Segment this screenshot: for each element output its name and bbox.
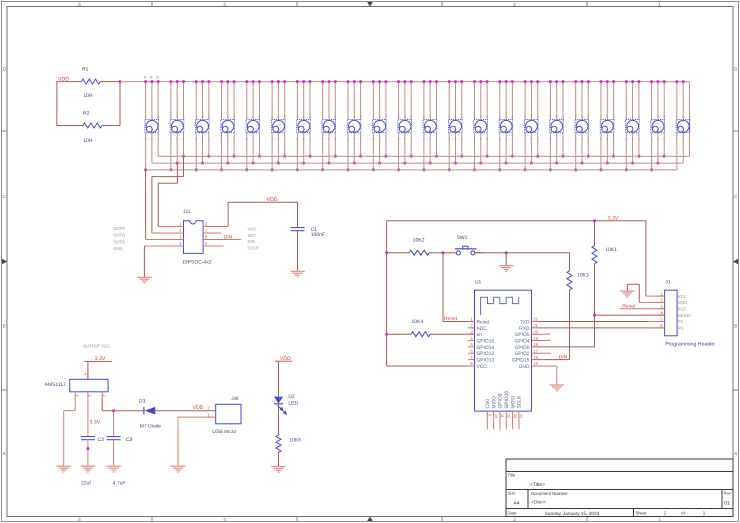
svg-text:2: 2 — [151, 115, 153, 119]
svg-text:12: 12 — [506, 414, 510, 418]
svg-text:LED: LED — [288, 401, 298, 407]
LED pixel 4 — [220, 80, 236, 171]
frame column ticks top — [152, 2, 587, 522]
svg-text:1: 1 — [347, 115, 349, 119]
svg-text:Sheet: Sheet — [636, 511, 648, 516]
svg-text:2: 2 — [505, 115, 507, 119]
svg-text:7: 7 — [470, 355, 473, 360]
svg-text:3: 3 — [360, 115, 362, 119]
LED pixel 20 — [625, 80, 641, 171]
svg-text:GPIO14: GPIO14 — [477, 345, 495, 351]
svg-text:GPIO13: GPIO13 — [477, 358, 495, 364]
svg-text:OUTG: OUTG — [113, 233, 125, 238]
svg-text:3: 3 — [157, 115, 159, 119]
wire 10K4 row — [387, 333, 412, 335]
svg-text:R2: R2 — [83, 111, 90, 117]
svg-text:10K4: 10K4 — [412, 319, 424, 325]
svg-text:8: 8 — [470, 361, 473, 366]
svg-text:3: 3 — [470, 329, 473, 334]
LED D2 — [274, 397, 283, 404]
svg-text:RXD: RXD — [519, 326, 530, 332]
connector J1 — [665, 290, 678, 336]
svg-text:2: 2 — [404, 115, 406, 119]
svg-text:GPIO2: GPIO2 — [515, 351, 530, 357]
wire U1 gnd drop — [556, 366, 558, 385]
wire left rail vertical — [386, 221, 388, 366]
wire gnd drop at SW1 — [505, 253, 507, 266]
svg-text:3: 3 — [613, 115, 615, 119]
svg-text:10R: 10R — [83, 93, 93, 99]
resistor 10K6 — [276, 435, 281, 452]
svg-text:10: 10 — [494, 414, 498, 418]
svg-text:DIN: DIN — [248, 239, 255, 244]
svg-text:<Doc>: <Doc> — [531, 500, 546, 506]
svg-text:3: 3 — [179, 235, 182, 240]
ground at J1 — [620, 290, 634, 292]
wire 3.3V rail — [387, 220, 646, 222]
svg-text:3.3V: 3.3V — [608, 216, 619, 222]
wire D3 to J36 — [155, 410, 215, 412]
wire J11 pin4 to ground — [143, 246, 145, 277]
LED pixel 14 — [473, 80, 489, 171]
svg-text:2: 2 — [657, 115, 659, 119]
wire VDD horizontal to C1 — [228, 201, 297, 203]
svg-text:DIPSOC-4x2: DIPSOC-4x2 — [183, 259, 212, 265]
svg-text:3: 3 — [663, 115, 665, 119]
svg-text:3: 3 — [410, 115, 412, 119]
svg-text:MISO: MISO — [491, 396, 497, 409]
wire bus line A — [158, 155, 689, 157]
svg-text:10K1: 10K1 — [605, 247, 617, 253]
switch SW1 — [448, 246, 484, 255]
wire VDD to R1 — [57, 81, 81, 83]
wire bus right end drop to line A — [689, 82, 691, 157]
svg-text:AMS1117: AMS1117 — [45, 382, 66, 388]
svg-text:Sunday, January 15, 2023: Sunday, January 15, 2023 — [545, 511, 600, 516]
LED pixel 11 — [397, 80, 413, 171]
wire line D return — [152, 176, 184, 178]
svg-text:1: 1 — [179, 222, 182, 227]
svg-text:3: 3 — [233, 115, 235, 119]
wire 3.3V drop to J1 — [645, 221, 647, 296]
svg-text:D: D — [3, 66, 7, 71]
svg-text:2: 2 — [581, 115, 583, 119]
svg-text:10K6: 10K6 — [289, 438, 301, 444]
svg-text:9: 9 — [488, 414, 492, 416]
svg-text:1: 1 — [651, 115, 653, 119]
J11 pin 1 — [158, 226, 183, 228]
svg-text:1: 1 — [423, 115, 425, 119]
svg-text:R1: R1 — [82, 67, 89, 73]
svg-text:3: 3 — [461, 115, 463, 119]
svg-text:5: 5 — [470, 342, 473, 347]
svg-text:3: 3 — [259, 115, 261, 119]
diode D3 — [143, 407, 145, 415]
junction below C2 — [86, 447, 89, 450]
wire RXD row — [532, 327, 665, 329]
svg-text:Reset: Reset — [622, 304, 636, 310]
capacitor C2 — [81, 436, 95, 438]
svg-text:3: 3 — [284, 115, 286, 119]
svg-text:Reset: Reset — [444, 316, 458, 322]
wire J1 pin4 row — [595, 314, 665, 316]
wire input row — [102, 410, 144, 412]
wire R1 right to node — [100, 81, 120, 83]
wire R2 right — [102, 125, 120, 127]
U1 pin19 stub — [532, 340, 551, 342]
capacitor C3 — [107, 436, 121, 438]
U1 antenna meander — [481, 297, 519, 315]
ground below C1 — [290, 270, 304, 272]
svg-text:G: G — [156, 76, 159, 80]
svg-text:2: 2 — [353, 115, 355, 119]
wire C2 to gnd — [87, 440, 89, 466]
title block — [506, 459, 733, 517]
wire VCC row — [387, 365, 475, 367]
svg-text:3: 3 — [183, 115, 185, 119]
U1 pin20 stub — [532, 333, 551, 335]
svg-text:17: 17 — [533, 348, 538, 353]
svg-text:D3: D3 — [139, 398, 146, 404]
svg-text:6: 6 — [205, 235, 208, 240]
svg-text:1: 1 — [170, 115, 172, 119]
svg-text:1: 1 — [297, 115, 299, 119]
svg-text:2: 2 — [660, 298, 663, 303]
junction left rail at en row — [385, 333, 388, 336]
svg-text:1: 1 — [499, 115, 501, 119]
J11 pin 3 — [146, 239, 184, 241]
svg-text:10K2: 10K2 — [413, 237, 425, 243]
svg-text:A: A — [3, 451, 6, 456]
svg-text:B: B — [3, 324, 6, 329]
svg-text:2: 2 — [176, 115, 178, 119]
svg-text:2: 2 — [606, 115, 608, 119]
svg-text:1: 1 — [664, 511, 667, 516]
svg-text:SET: SET — [248, 233, 257, 238]
svg-text:01: 01 — [724, 501, 730, 507]
wire bus line B — [152, 162, 683, 164]
svg-text:3: 3 — [537, 115, 539, 119]
wire left vertical R1-R2 — [56, 81, 58, 126]
wire VDD to D2 — [278, 361, 280, 396]
U1 pin 6 stub — [468, 352, 475, 354]
svg-text:2: 2 — [227, 115, 229, 119]
svg-text:ADC: ADC — [477, 326, 488, 332]
junction R1/R2 output node — [119, 80, 122, 83]
svg-text:1: 1 — [660, 291, 663, 296]
wire 10K4 to U1 en — [430, 333, 474, 335]
J1 pin2 wire — [639, 301, 664, 303]
svg-text:USB micro: USB micro — [212, 429, 236, 435]
svg-text:1: 1 — [75, 395, 79, 397]
svg-text:SCLK: SCLK — [517, 395, 523, 409]
wire line E right riser — [176, 163, 178, 183]
LED pixel 9 — [347, 80, 363, 171]
svg-text:2: 2 — [632, 115, 634, 119]
svg-text:GPIO10: GPIO10 — [504, 391, 510, 409]
ground at U1 — [550, 384, 564, 386]
svg-text:RX: RX — [678, 326, 684, 331]
frame row letters — [3, 66, 739, 456]
svg-text:3: 3 — [562, 115, 564, 119]
wire U1 GND row — [532, 365, 557, 367]
svg-text:2: 2 — [470, 323, 473, 328]
svg-text:3: 3 — [660, 304, 663, 309]
svg-text:2: 2 — [278, 115, 280, 119]
wire 10K6 to gnd — [278, 452, 280, 466]
wire D2 to 10K6 — [278, 404, 280, 435]
svg-text:1: 1 — [398, 115, 400, 119]
LED pixel 21 — [650, 80, 666, 171]
svg-text:DOUT: DOUT — [248, 246, 260, 251]
svg-text:2: 2 — [179, 228, 182, 233]
svg-text:Document Number: Document Number — [531, 491, 568, 496]
svg-text:Size: Size — [508, 491, 517, 496]
connector J36 — [216, 404, 241, 424]
svg-text:5: 5 — [660, 317, 663, 322]
svg-text:1: 1 — [372, 115, 374, 119]
J1 pin6 stub — [648, 327, 665, 329]
svg-text:4: 4 — [84, 373, 86, 377]
ground below 10K6 — [271, 466, 285, 468]
junction C3 tap — [112, 409, 115, 412]
svg-text:DIN: DIN — [559, 355, 568, 361]
svg-text:4: 4 — [470, 336, 473, 341]
wire line E return — [158, 182, 177, 184]
svg-text:20: 20 — [533, 329, 538, 334]
svg-text:19: 19 — [533, 336, 538, 341]
svg-text:RST: RST — [678, 307, 687, 312]
svg-text:3: 3 — [309, 115, 311, 119]
wire AMS out pin — [87, 398, 89, 437]
J1 pin5 stub — [648, 321, 665, 323]
wire rail to 10K2 — [387, 252, 410, 254]
wire top VDD bus of LED array — [120, 81, 690, 83]
LED pixel 3 — [195, 80, 211, 171]
wire 10K1 bottom — [594, 264, 596, 347]
resistor 10K1 — [592, 246, 597, 264]
svg-text:C: C — [3, 194, 7, 199]
svg-text:15: 15 — [533, 361, 538, 366]
frame column numbers — [78, 2, 661, 522]
LED pixel 13 — [448, 80, 464, 171]
LED pixel 1 — [144, 80, 160, 171]
svg-text:Reset: Reset — [477, 319, 490, 325]
U1 pin17 stub DIN — [532, 352, 552, 354]
title block text — [508, 472, 732, 516]
svg-text:GND: GND — [678, 300, 687, 305]
svg-text:2: 2 — [429, 115, 431, 119]
resistor 10K4 — [411, 332, 430, 337]
svg-text:2: 2 — [556, 115, 558, 119]
wire R2 row left — [57, 125, 83, 127]
svg-text:2: 2 — [303, 115, 305, 119]
svg-text:2: 2 — [531, 115, 533, 119]
J11 right pin names — [248, 227, 260, 251]
svg-text:3: 3 — [638, 115, 640, 119]
svg-text:GND: GND — [519, 364, 530, 370]
wire C1 to ground — [297, 231, 299, 271]
svg-text:VCC: VCC — [678, 294, 687, 299]
pin segments at symbol edges — [88, 296, 665, 379]
svg-text:J1: J1 — [665, 279, 671, 285]
svg-text:SW1: SW1 — [457, 235, 468, 241]
J1 pin4 stub — [648, 314, 665, 316]
svg-text:C2: C2 — [98, 437, 105, 443]
svg-text:18: 18 — [533, 342, 538, 347]
svg-text:2: 2 — [102, 395, 106, 397]
svg-text:1: 1 — [575, 115, 577, 119]
svg-text:2: 2 — [682, 115, 684, 119]
svg-text:2: 2 — [328, 115, 330, 119]
LED pixel 7 — [296, 80, 312, 171]
J1 pin1 wire — [646, 295, 665, 297]
svg-text:3: 3 — [208, 115, 210, 119]
svg-text:M7 Diode: M7 Diode — [140, 424, 162, 430]
J11 pin 4 — [144, 245, 183, 247]
svg-text:C: C — [734, 194, 738, 199]
svg-text:1: 1 — [322, 115, 324, 119]
svg-text:100nF: 100nF — [311, 232, 325, 238]
svg-text:GPIO16: GPIO16 — [477, 338, 495, 344]
svg-text:6: 6 — [470, 348, 473, 353]
svg-text:22: 22 — [533, 317, 538, 322]
svg-text:GPIO0: GPIO0 — [515, 345, 530, 351]
svg-text:GPIO4: GPIO4 — [515, 338, 530, 344]
J11 pin 2 — [152, 232, 184, 234]
wire bus line C — [146, 169, 677, 171]
U1 left pin numbers and names — [470, 317, 494, 370]
svg-text:7: 7 — [205, 228, 208, 233]
svg-text:A: A — [734, 451, 737, 456]
svg-text:1: 1 — [625, 115, 627, 119]
svg-text:4: 4 — [179, 241, 182, 246]
wire 10K3 top lead — [569, 253, 571, 271]
svg-text:5: 5 — [205, 241, 208, 246]
svg-text:A4: A4 — [513, 501, 519, 507]
svg-text:VCC: VCC — [477, 364, 488, 370]
svg-text:GPIO15: GPIO15 — [512, 358, 530, 364]
wire 10K3 bottom to GPIO15 — [569, 290, 571, 360]
svg-text:VDD: VDD — [193, 405, 204, 411]
module U1 box — [475, 290, 532, 411]
wire AMS in pin — [101, 398, 103, 411]
wire J1 pin2 gnd bend — [638, 284, 640, 302]
svg-text:1: 1 — [524, 115, 526, 119]
wire line D drop to J11 pin2 — [151, 177, 153, 233]
svg-text:en: en — [477, 333, 483, 338]
svg-text:10R: 10R — [83, 138, 93, 144]
resistor R2 — [83, 123, 102, 128]
ground at AMS1117 — [57, 465, 71, 467]
J11 pin 8 — [203, 226, 228, 228]
svg-text:1: 1 — [676, 115, 678, 119]
svg-text:16: 16 — [533, 355, 538, 360]
wire right vertical joining R1 R2 — [119, 82, 121, 126]
U1 pin 7 stub — [468, 359, 475, 361]
resistor R1 — [81, 79, 100, 84]
svg-text:3: 3 — [334, 115, 336, 119]
U1 pin 4 stub — [468, 340, 475, 342]
svg-text:2: 2 — [208, 406, 211, 411]
svg-text:GPIO5: GPIO5 — [515, 332, 530, 338]
svg-text:GND: GND — [113, 246, 122, 251]
svg-text:TXD: TXD — [520, 319, 530, 325]
J11 pin 5 — [203, 245, 224, 247]
svg-text:1: 1 — [600, 115, 602, 119]
wire Reset vertical — [442, 253, 444, 322]
svg-text:2: 2 — [252, 115, 254, 119]
svg-text:C3: C3 — [126, 437, 133, 443]
svg-text:1: 1 — [474, 115, 476, 119]
LED pixel 6 — [271, 80, 287, 171]
svg-text:1: 1 — [246, 115, 248, 119]
U1 pin 2 stub — [468, 327, 475, 329]
svg-text:GPIO12: GPIO12 — [477, 351, 495, 357]
U1 right pin numbers and names — [512, 317, 539, 370]
LED pixel 22 — [675, 80, 690, 170]
LED pixel 15 — [498, 80, 514, 171]
LED pixel 19 — [600, 80, 616, 171]
junction reset node — [442, 251, 445, 254]
svg-text:CS0: CS0 — [485, 399, 491, 409]
LED pixel 10 — [372, 80, 388, 171]
J1 pin3 wire — [620, 308, 665, 310]
svg-text:J36: J36 — [231, 396, 239, 401]
svg-text:3.3V: 3.3V — [90, 420, 101, 426]
wire 3.3V to AMS1117 — [87, 361, 89, 379]
svg-text:22uf: 22uf — [81, 481, 91, 487]
svg-text:11: 11 — [500, 414, 504, 418]
regulator AMS1117 — [70, 379, 108, 392]
LED pixel 17 — [549, 80, 565, 171]
resistor 10K2 — [409, 250, 429, 255]
svg-text:U1: U1 — [475, 280, 482, 286]
svg-text:Date:: Date: — [508, 511, 518, 516]
wire 10K2 to SW1 — [429, 252, 456, 254]
wire VDD down to C1 — [297, 202, 299, 227]
J1 pin numbers and names — [660, 291, 691, 330]
svg-text:GPIO9: GPIO9 — [498, 393, 504, 408]
svg-text:8: 8 — [205, 222, 208, 227]
J11 pin 6 — [203, 239, 241, 241]
svg-text:3: 3 — [385, 115, 387, 119]
svg-text:OUTR: OUTR — [113, 226, 125, 231]
ground below J11 — [137, 276, 151, 278]
svg-text:2: 2 — [480, 115, 482, 119]
junction 3.3V at 10K1 — [593, 219, 596, 222]
svg-text:3: 3 — [512, 115, 514, 119]
wire Reset to U1 pin1 — [443, 321, 475, 323]
svg-text:3: 3 — [88, 395, 92, 397]
junction left rail at SW row — [385, 251, 388, 254]
svg-text:2: 2 — [202, 115, 204, 119]
svg-text:Programming Header: Programming Header — [665, 342, 715, 348]
AMS1117 pin stubs — [75, 392, 106, 398]
svg-text:OUTPUT VCC: OUTPUT VCC — [83, 343, 110, 348]
LED pixel 12 — [422, 80, 438, 171]
svg-text:VDD: VDD — [248, 227, 257, 232]
svg-text:<Title>: <Title> — [530, 482, 545, 488]
svg-text:Title: Title — [508, 472, 516, 477]
LED pixel 2 — [169, 80, 185, 171]
svg-text:VDD: VDD — [267, 197, 278, 203]
LED pixel 16 — [524, 80, 540, 171]
svg-text:TX: TX — [678, 319, 684, 324]
wire line D right riser — [183, 156, 185, 176]
svg-text:GPIO0: GPIO0 — [678, 313, 691, 318]
svg-text:6: 6 — [660, 323, 663, 328]
